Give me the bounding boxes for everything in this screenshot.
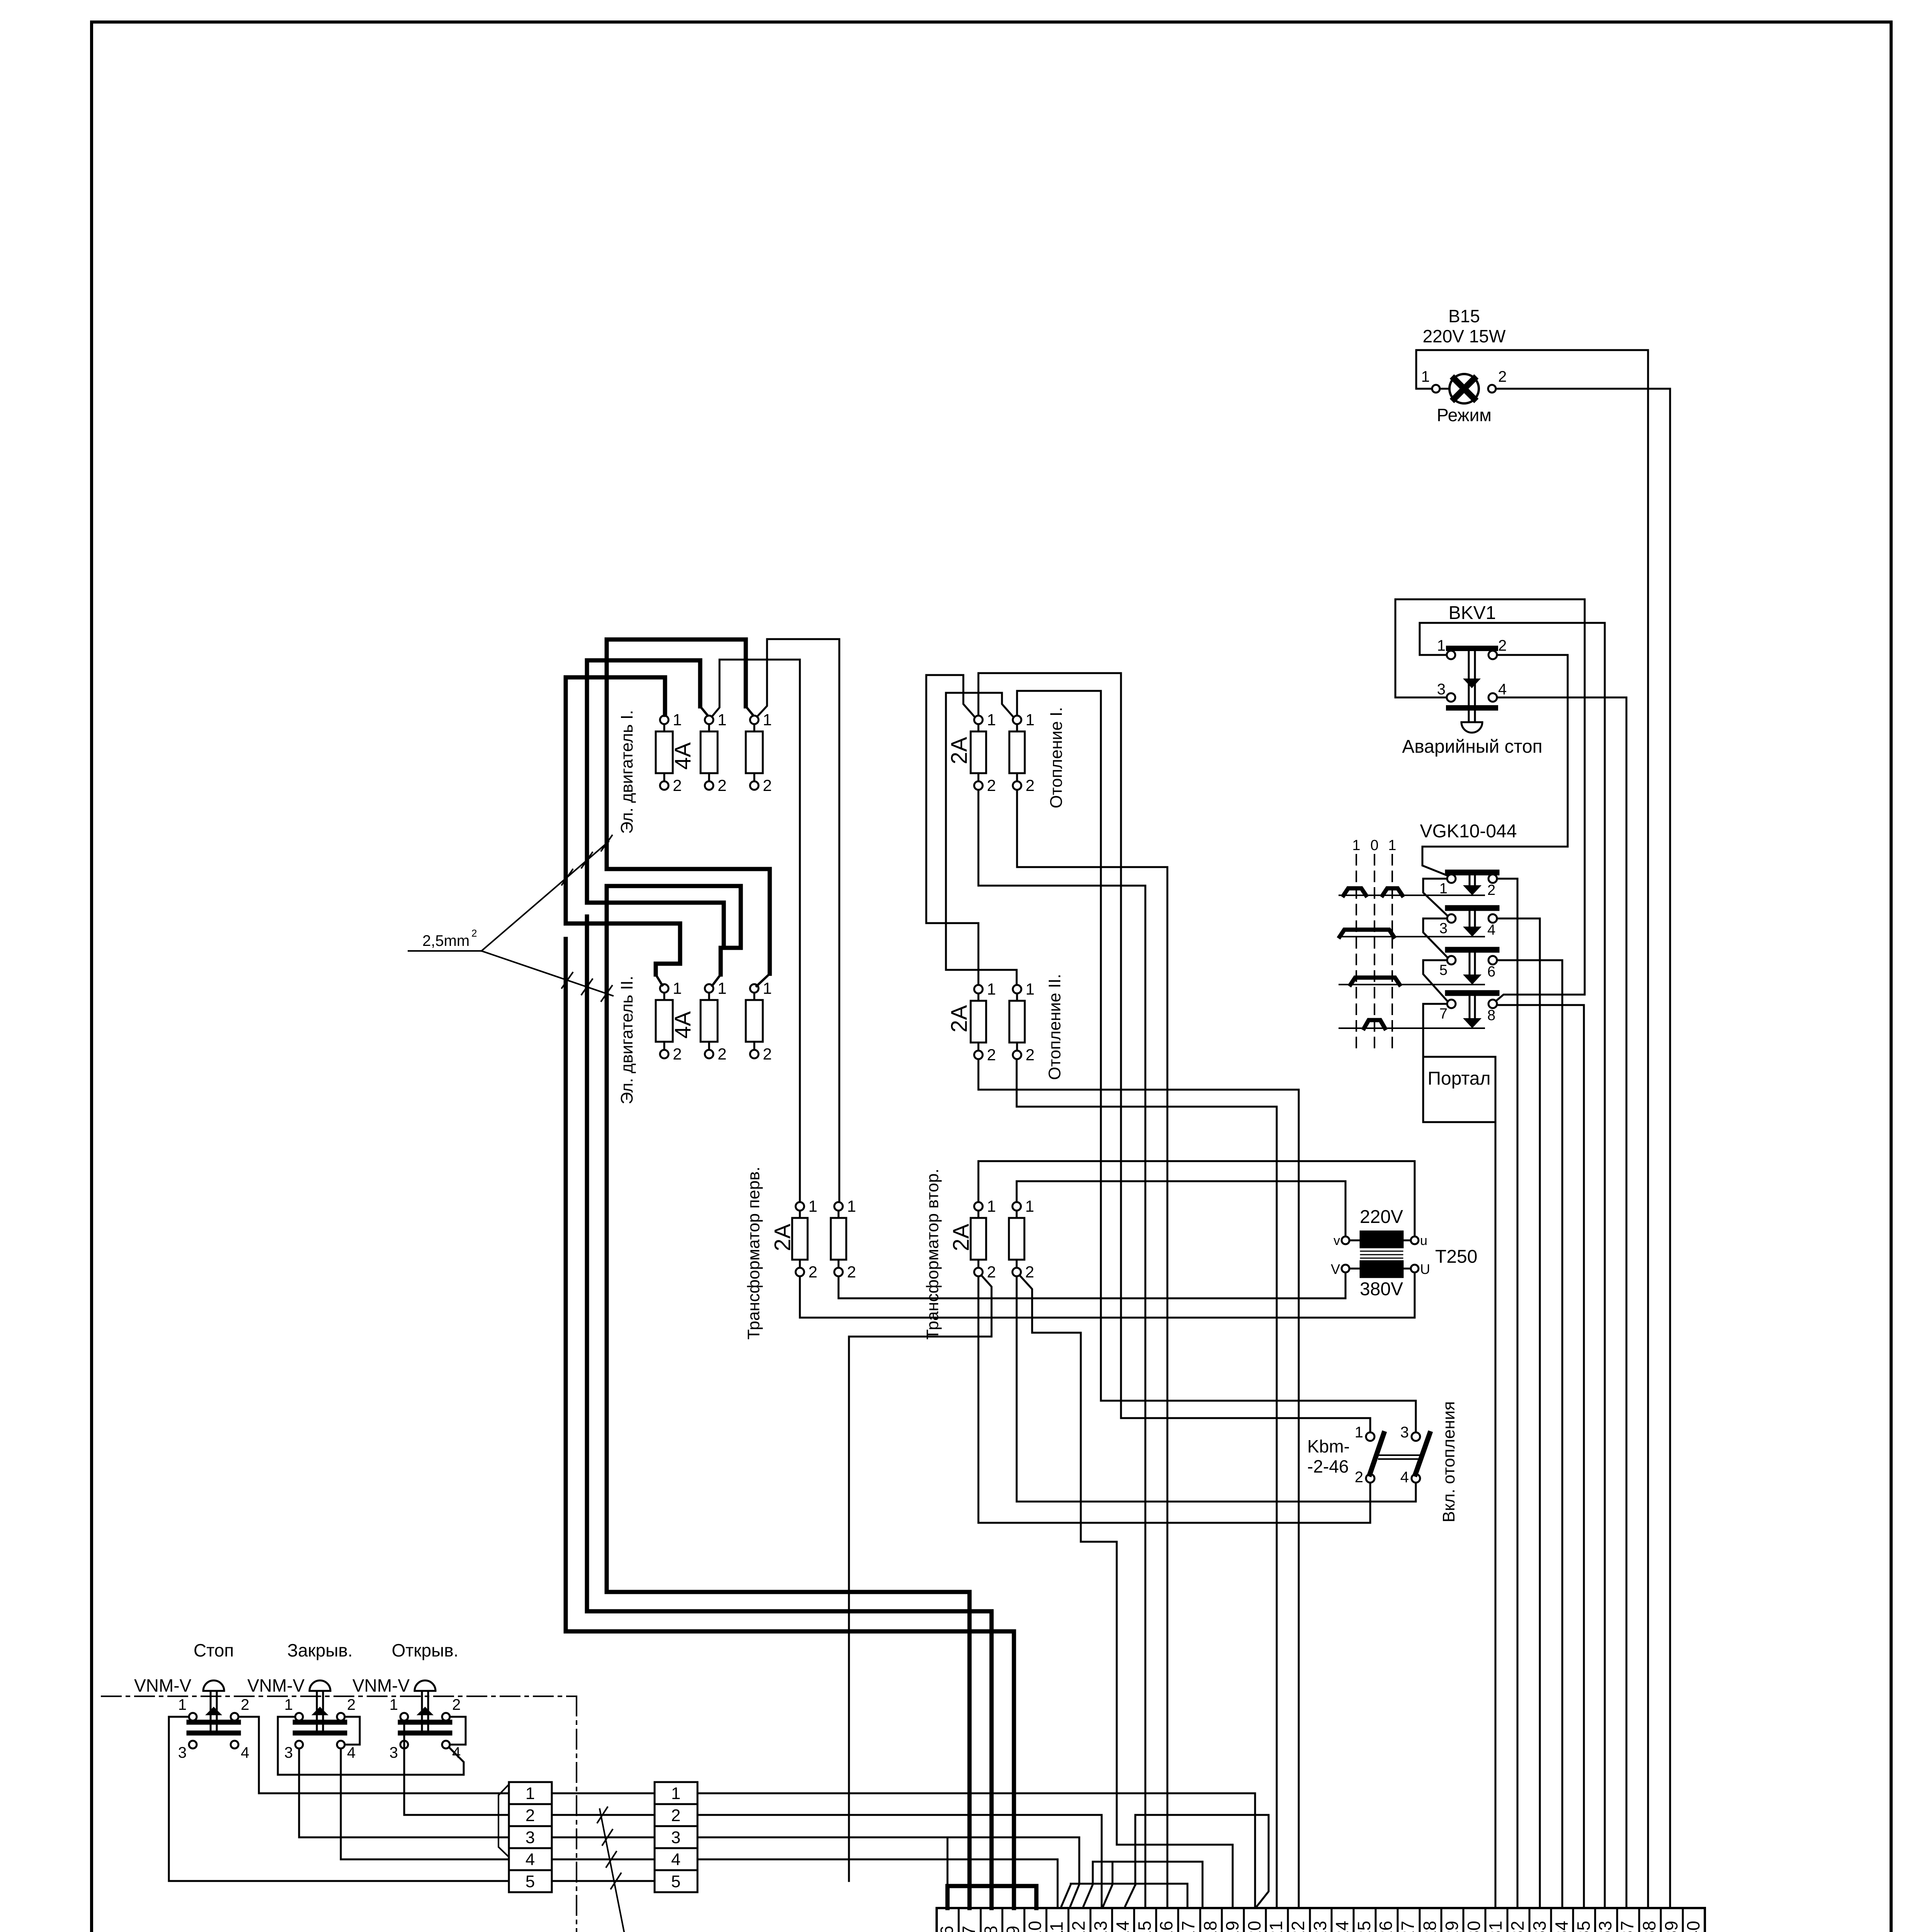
svg-text:VGK10-044: VGK10-044 [1420,821,1517,842]
svg-text:1: 1 [1352,837,1360,854]
svg-text:2: 2 [847,1263,856,1281]
svg-text:1: 1 [763,711,772,729]
svg-text:7: 7 [1439,1006,1448,1022]
svg-text:Закрыв.: Закрыв. [287,1640,352,1660]
svg-text:2A: 2A [947,737,972,764]
svg-text:2: 2 [347,1696,356,1713]
svg-text:28: 28 [1420,1921,1440,1932]
svg-text:31: 31 [1485,1921,1505,1932]
svg-text:9: 9 [1003,1926,1023,1932]
svg-text:10: 10 [1025,1921,1045,1932]
svg-text:U: U [1420,1261,1430,1277]
svg-text:2: 2 [1355,1469,1363,1486]
svg-text:2: 2 [671,1806,680,1825]
svg-text:1: 1 [1439,881,1448,897]
svg-text:18: 18 [1200,1921,1220,1932]
svg-text:13: 13 [1090,1921,1111,1932]
svg-text:2A: 2A [947,1005,972,1032]
svg-text:5: 5 [671,1872,680,1891]
svg-text:7: 7 [959,1926,979,1932]
svg-text:Аварийный стоп: Аварийный стоп [1402,736,1542,757]
svg-text:B15: B15 [1448,306,1480,326]
svg-text:Трансформатор втор.: Трансформатор втор. [923,1168,942,1340]
svg-text:2: 2 [471,927,477,939]
svg-text:1: 1 [526,1784,535,1803]
svg-text:17: 17 [1178,1921,1198,1932]
svg-text:1: 1 [390,1696,398,1713]
svg-text:Kbm-: Kbm- [1307,1436,1350,1456]
svg-text:4: 4 [671,1850,680,1869]
svg-text:2: 2 [1026,776,1034,794]
svg-text:2: 2 [718,776,726,794]
svg-text:21: 21 [1266,1921,1286,1932]
svg-text:2: 2 [987,1046,996,1064]
svg-text:2: 2 [1026,1046,1034,1064]
svg-text:Отопление II.: Отопление II. [1045,974,1064,1080]
svg-text:Эл. двигатель I.: Эл. двигатель I. [617,710,636,834]
svg-text:4A: 4A [670,742,696,770]
svg-text:4: 4 [1400,1469,1409,1486]
svg-text:24: 24 [1332,1921,1352,1932]
svg-text:1: 1 [718,979,726,997]
svg-text:29: 29 [1442,1921,1462,1932]
svg-text:4A: 4A [670,1011,696,1039]
svg-text:1: 1 [1421,368,1430,385]
svg-text:3: 3 [284,1744,293,1761]
svg-text:2: 2 [241,1696,249,1713]
svg-text:37: 37 [1617,1921,1637,1932]
svg-text:1: 1 [763,979,772,997]
svg-text:u: u [1420,1233,1427,1248]
svg-text:Стоп: Стоп [194,1640,234,1660]
svg-text:1: 1 [673,711,682,729]
svg-text:27: 27 [1398,1921,1418,1932]
svg-text:32: 32 [1507,1921,1527,1932]
svg-text:2,5mm: 2,5mm [422,932,469,949]
svg-text:1: 1 [987,1197,996,1215]
svg-text:2: 2 [763,1045,772,1063]
svg-text:1: 1 [673,979,682,997]
svg-text:1: 1 [671,1784,680,1803]
svg-text:1: 1 [178,1696,187,1713]
svg-text:380V: 380V [1360,1279,1403,1299]
svg-text:2: 2 [987,776,996,794]
svg-text:12: 12 [1068,1921,1089,1932]
svg-text:1: 1 [718,711,726,729]
svg-text:2: 2 [1487,882,1495,898]
svg-text:25: 25 [1354,1921,1374,1932]
svg-text:v: v [1334,1233,1340,1248]
svg-text:1: 1 [1026,980,1034,998]
svg-text:BKV1: BKV1 [1449,603,1496,623]
svg-text:T250: T250 [1435,1247,1477,1267]
svg-text:1: 1 [1025,1197,1034,1215]
svg-text:3: 3 [1437,681,1446,698]
svg-text:2: 2 [526,1806,535,1825]
svg-text:3: 3 [1439,920,1448,937]
svg-text:2: 2 [808,1263,817,1281]
svg-text:220V: 220V [1360,1207,1403,1227]
svg-text:2: 2 [673,776,682,794]
svg-text:VNM-V: VNM-V [352,1675,410,1696]
svg-text:1: 1 [808,1197,817,1215]
svg-text:23: 23 [1310,1921,1330,1932]
svg-text:220V 15W: 220V 15W [1423,326,1506,346]
svg-text:2: 2 [718,1045,726,1063]
svg-text:2A: 2A [770,1224,795,1251]
svg-text:5: 5 [1439,962,1448,978]
svg-text:3: 3 [390,1744,398,1761]
svg-text:4: 4 [1498,681,1507,698]
svg-text:34: 34 [1551,1921,1572,1932]
svg-text:Эл. двигатель II.: Эл. двигатель II. [617,976,636,1104]
svg-text:4: 4 [241,1744,249,1761]
svg-text:14: 14 [1112,1921,1133,1932]
svg-text:Режим: Режим [1437,405,1492,425]
svg-text:1: 1 [1437,637,1446,654]
svg-text:VNM-V: VNM-V [247,1675,305,1696]
svg-text:8: 8 [981,1926,1001,1932]
svg-text:1: 1 [987,980,996,998]
svg-text:Отопление I.: Отопление I. [1047,707,1066,808]
svg-text:0: 0 [1370,837,1378,854]
svg-text:1: 1 [1388,837,1396,854]
svg-text:2: 2 [987,1263,996,1281]
svg-text:19: 19 [1222,1921,1242,1932]
svg-text:3: 3 [1400,1424,1409,1441]
svg-text:Трансформатор перв.: Трансформатор перв. [744,1167,763,1340]
svg-text:2: 2 [673,1045,682,1063]
svg-text:22: 22 [1288,1921,1308,1932]
svg-text:15: 15 [1135,1921,1155,1932]
svg-text:2: 2 [452,1696,461,1713]
svg-text:1: 1 [284,1696,293,1713]
svg-text:1: 1 [1026,711,1034,729]
svg-text:35: 35 [1573,1921,1594,1932]
svg-text:33: 33 [1529,1921,1550,1932]
svg-text:2: 2 [1498,637,1507,654]
svg-text:30: 30 [1464,1921,1484,1932]
svg-text:16: 16 [1156,1921,1176,1932]
svg-text:VNM-V: VNM-V [134,1675,192,1696]
svg-text:63: 63 [1595,1921,1615,1932]
svg-text:4: 4 [1487,922,1495,938]
svg-text:2A: 2A [949,1224,974,1251]
svg-text:4: 4 [347,1744,356,1761]
svg-text:3: 3 [178,1744,187,1761]
svg-text:2: 2 [1498,368,1507,385]
svg-text:2: 2 [1025,1263,1034,1281]
svg-text:6: 6 [1487,964,1495,980]
svg-text:Портал: Портал [1428,1068,1491,1089]
svg-text:1: 1 [987,711,996,729]
svg-text:3: 3 [671,1828,680,1847]
svg-text:Открыв.: Открыв. [392,1640,459,1660]
svg-text:11: 11 [1046,1922,1067,1932]
svg-text:V: V [1331,1261,1340,1277]
svg-text:8: 8 [1487,1007,1495,1024]
svg-text:4: 4 [526,1850,535,1869]
svg-text:-2-46: -2-46 [1307,1456,1349,1476]
svg-text:1: 1 [1355,1424,1363,1441]
svg-text:5: 5 [526,1872,535,1891]
svg-text:6: 6 [937,1926,957,1932]
svg-text:26: 26 [1376,1921,1396,1932]
svg-text:Вкл. отопления: Вкл. отопления [1439,1401,1458,1522]
svg-text:3: 3 [526,1828,535,1847]
svg-text:1: 1 [847,1197,856,1215]
svg-text:2: 2 [763,776,772,794]
svg-text:40: 40 [1683,1921,1703,1932]
svg-text:39: 39 [1661,1921,1681,1932]
svg-text:38: 38 [1639,1921,1659,1932]
svg-text:20: 20 [1244,1921,1264,1932]
